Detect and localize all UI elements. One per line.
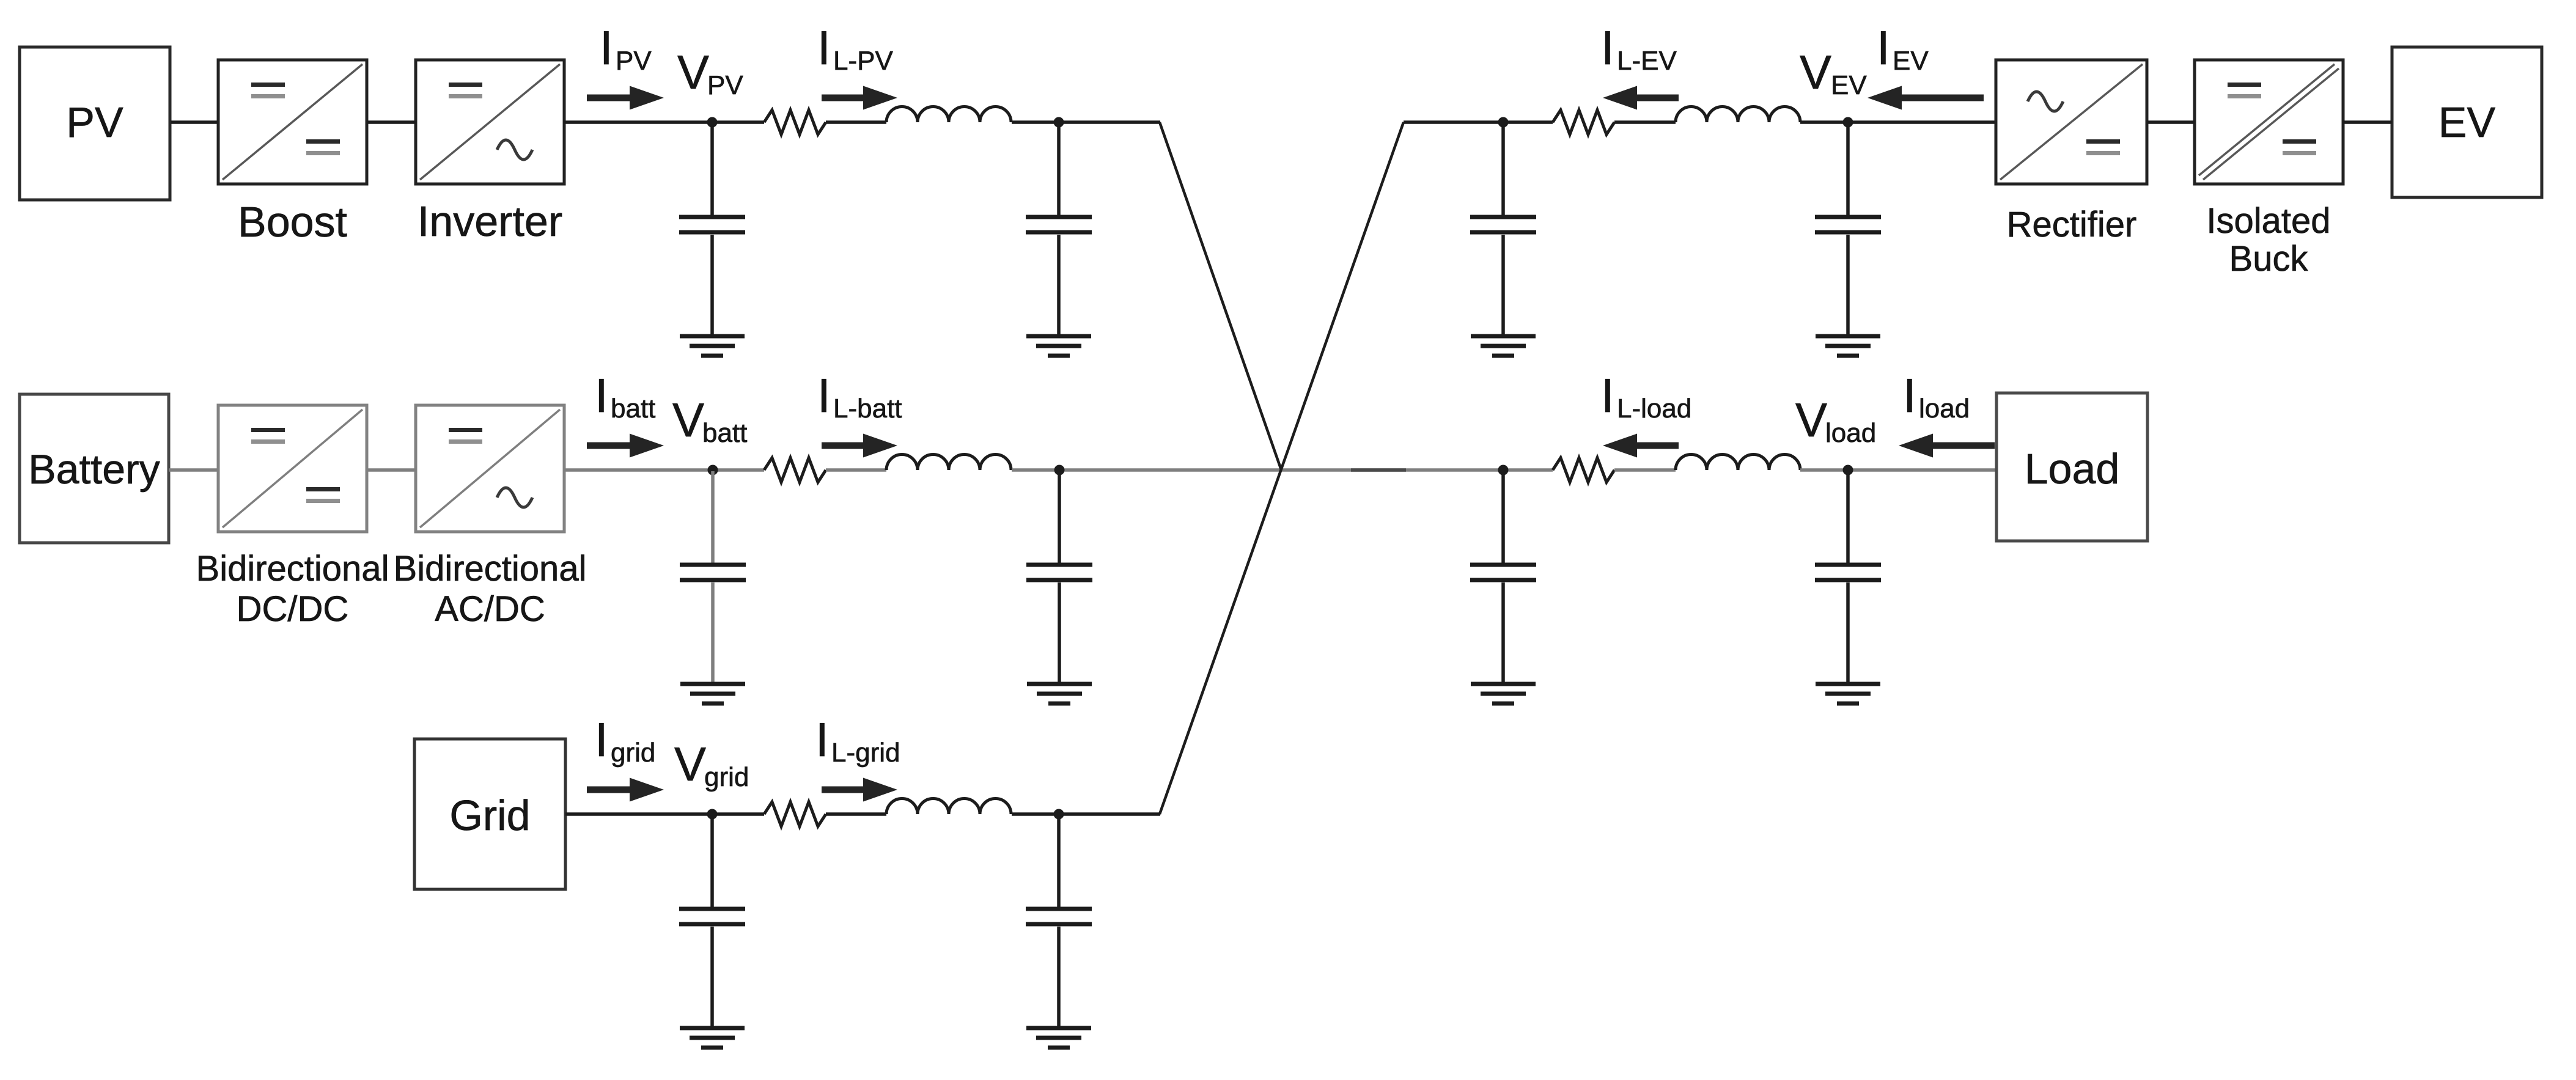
svg-text:I: I [817, 369, 831, 422]
svg-text:I: I [600, 21, 613, 75]
svg-text:load: load [1919, 394, 1970, 424]
svg-text:Buck: Buck [2229, 239, 2309, 279]
svg-text:L-batt: L-batt [833, 394, 902, 424]
svg-text:V: V [677, 45, 709, 99]
svg-text:I: I [1903, 369, 1916, 422]
svg-text:grid: grid [704, 762, 749, 792]
svg-text:Isolated: Isolated [2206, 201, 2330, 241]
svg-text:I: I [815, 713, 829, 766]
svg-text:I: I [1601, 21, 1614, 75]
svg-text:I: I [1601, 369, 1614, 422]
svg-text:load: load [1825, 418, 1876, 448]
svg-text:DC/DC: DC/DC [237, 589, 349, 629]
svg-text:Rectifier: Rectifier [2007, 205, 2137, 244]
svg-text:PV: PV [707, 70, 743, 100]
svg-text:L-grid: L-grid [831, 738, 900, 768]
svg-text:L-load: L-load [1617, 394, 1691, 424]
svg-text:I: I [1877, 21, 1890, 75]
svg-text:V: V [1800, 45, 1831, 99]
svg-text:Load: Load [2025, 445, 2120, 493]
svg-text:V: V [674, 737, 706, 791]
svg-text:EV: EV [1893, 46, 1929, 76]
svg-text:I: I [817, 21, 831, 75]
svg-text:EV: EV [2438, 98, 2496, 146]
svg-text:Boost: Boost [238, 198, 347, 246]
svg-text:AC/DC: AC/DC [435, 589, 545, 629]
svg-text:PV: PV [66, 98, 123, 146]
svg-text:batt: batt [702, 418, 747, 448]
svg-text:Battery: Battery [28, 446, 160, 493]
svg-text:Bidirectional: Bidirectional [394, 549, 587, 589]
svg-text:V: V [1795, 393, 1827, 447]
svg-text:Bidirectional: Bidirectional [196, 549, 389, 589]
svg-text:grid: grid [611, 738, 655, 768]
svg-text:V: V [672, 393, 704, 447]
svg-text:Grid: Grid [449, 792, 530, 839]
svg-text:I: I [595, 369, 608, 422]
svg-text:EV: EV [1831, 70, 1867, 100]
svg-text:I: I [595, 713, 608, 766]
svg-text:L-PV: L-PV [833, 46, 893, 76]
svg-text:batt: batt [611, 394, 655, 424]
svg-text:L-EV: L-EV [1617, 46, 1677, 76]
svg-text:Inverter: Inverter [418, 197, 562, 245]
svg-text:PV: PV [616, 46, 652, 76]
